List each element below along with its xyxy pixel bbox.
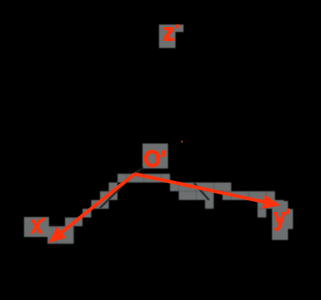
y' axis wire from origin O' bbox=[135, 174, 264, 202]
y' axis arrowhead bbox=[262, 195, 281, 209]
x' axis wire from origin O' bbox=[62, 174, 135, 232]
halo blocks around y' arrowhead bbox=[258, 191, 267, 200]
faint black unprimed x axis remnant bbox=[100, 174, 135, 208]
label background box y' bbox=[272, 201, 288, 240]
svg-text:O: O bbox=[144, 146, 161, 173]
x' axis arrowhead bbox=[48, 227, 66, 244]
halo blocks around x' arrowhead bbox=[39, 226, 48, 235]
prime tick of x' bbox=[41, 218, 45, 222]
prime tick of y' bbox=[286, 209, 290, 215]
stray red fleck bbox=[181, 141, 183, 143]
halo blocks along x' axis wire bbox=[48, 235, 57, 244]
label background box x' bbox=[24, 217, 49, 237]
halo blocks below y' axis middle bbox=[179, 191, 188, 200]
label background box O' bbox=[143, 144, 169, 169]
halo blocks along faint black axis remnants bbox=[100, 200, 109, 209]
svg-text:z: z bbox=[163, 20, 175, 47]
label background box z' bbox=[159, 25, 176, 49]
faint dark cone between O' box and origin node bbox=[131, 167, 145, 175]
prime tick of O' bbox=[160, 150, 166, 157]
svg-text:y: y bbox=[274, 205, 286, 232]
faint black remnant crossing y' axis bbox=[194, 183, 209, 200]
halo blocks along y' axis wire bbox=[135, 174, 144, 183]
svg-text:x: x bbox=[31, 212, 43, 239]
prime tick of z' bbox=[175, 25, 179, 29]
